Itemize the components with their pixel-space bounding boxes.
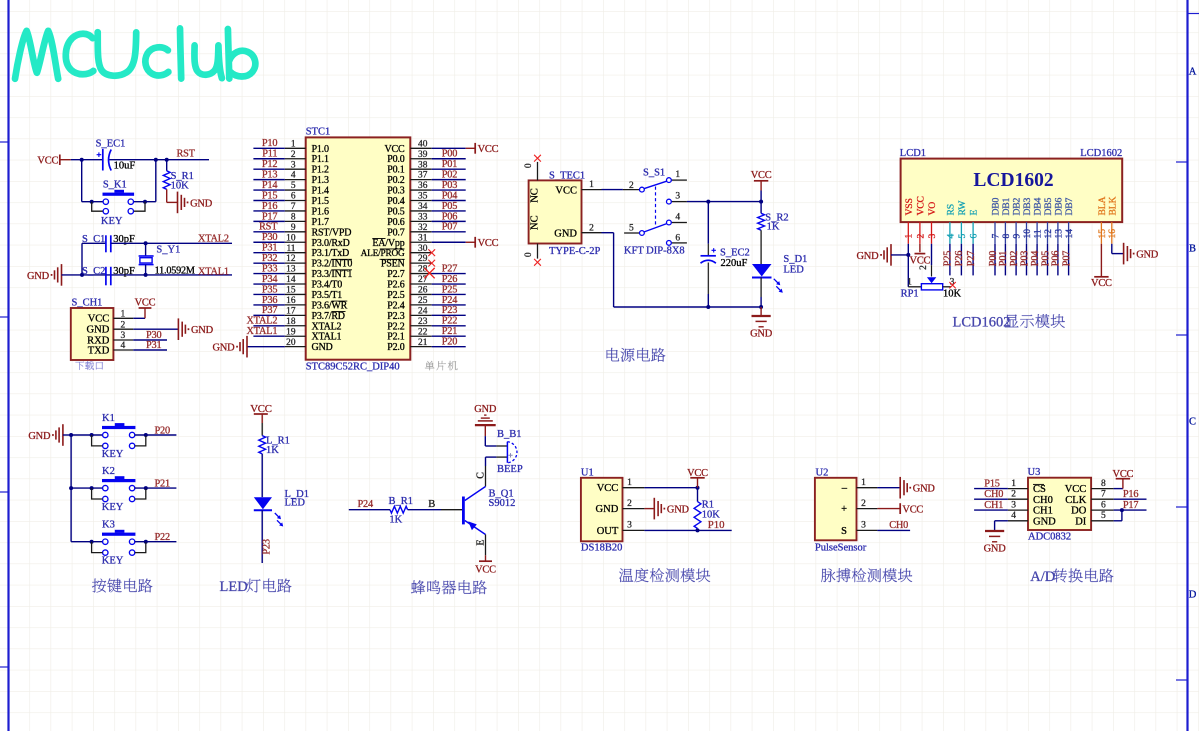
wire L_D1 to P23 <box>261 510 263 563</box>
RP1 value 10K <box>943 288 962 299</box>
svg-text:P31: P31 <box>146 340 161 351</box>
RP1 pin numbers <box>907 278 955 288</box>
svg-text:RST/VPD: RST/VPD <box>312 227 352 238</box>
wire GND to XTAL1 <box>62 273 233 277</box>
ground (ADC) <box>984 531 1007 555</box>
S_C1 value 30pF <box>113 234 135 245</box>
net label CH0 (ADC) <box>984 489 1003 500</box>
caption 按键电路 <box>92 579 152 593</box>
svg-text:STC1: STC1 <box>306 126 331 137</box>
svg-text:9: 9 <box>1013 234 1023 239</box>
svg-text:GND: GND <box>984 544 1007 555</box>
svg-text:CLK: CLK <box>1065 495 1086 506</box>
svg-text:K3: K3 <box>102 520 115 531</box>
emitter pin with E label <box>475 535 486 556</box>
svg-text:P00: P00 <box>442 149 457 160</box>
LCD1602 part name (top right) <box>1080 148 1122 159</box>
U2 pin 2 <box>857 499 878 509</box>
switch S_S1 designator <box>643 168 665 179</box>
svg-text:P10: P10 <box>708 519 725 531</box>
key S_K1 designator <box>103 179 127 190</box>
svg-text:5: 5 <box>958 234 968 239</box>
wire U1 pin2 to GND <box>644 508 654 510</box>
svg-text:P04: P04 <box>442 190 457 201</box>
S_R2 value 1K <box>767 222 780 233</box>
svg-text:P3.0/RxD: P3.0/RxD <box>312 238 350 249</box>
svg-text:CS: CS <box>1033 484 1046 495</box>
svg-text:P0.7: P0.7 <box>387 227 404 238</box>
svg-text:P1.4: P1.4 <box>312 186 329 197</box>
svg-text:6: 6 <box>1101 501 1106 511</box>
svg-text:NC: NC <box>529 188 540 203</box>
svg-text:10uF: 10uF <box>114 160 136 171</box>
U3 pin1 wire P15 <box>974 488 1028 490</box>
svg-text:DB5: DB5 <box>1043 197 1054 215</box>
no-ERC cross (bottom NC) <box>534 259 541 266</box>
svg-text:KEY: KEY <box>102 556 124 567</box>
wire C1 to XTAL2 <box>111 241 232 245</box>
svg-text:7: 7 <box>991 234 1001 239</box>
no-ERC cross pin30 <box>428 249 435 256</box>
wire U2 pin1 to GND <box>877 487 900 489</box>
ADC U3 designator <box>1028 467 1041 478</box>
svg-text:S: S <box>841 526 847 537</box>
svg-text:P06: P06 <box>1051 251 1062 266</box>
svg-text:PSEN: PSEN <box>381 259 405 270</box>
svg-text:LCD1602: LCD1602 <box>973 170 1053 191</box>
power VCC (DS18B20) <box>687 468 708 488</box>
svg-text:P35: P35 <box>262 284 277 295</box>
svg-text:A: A <box>1189 67 1197 78</box>
S_TEC1 part name TYPE-C-2P <box>549 246 600 257</box>
svg-text:P2.4: P2.4 <box>387 300 404 311</box>
svg-text:6: 6 <box>675 233 680 243</box>
wire K1 right <box>135 434 177 436</box>
svg-text:S_D1: S_D1 <box>783 254 807 265</box>
wire K3 right <box>135 541 177 543</box>
connector S_TEC1 body TYPE-C <box>529 180 582 243</box>
svg-text:GND: GND <box>1136 250 1159 261</box>
svg-text:P2.5: P2.5 <box>387 290 404 301</box>
buzzer value BEEP <box>497 464 523 475</box>
U3 pin8 wire to VCC <box>1091 488 1123 490</box>
svg-text:DB6: DB6 <box>1053 197 1064 215</box>
key bus vertical wire <box>69 435 73 542</box>
key K3 designator <box>102 520 115 531</box>
LCD rotated net labels P25-P27 <box>943 251 977 266</box>
B_R1 value 1K <box>389 515 402 526</box>
svg-text:2: 2 <box>916 234 926 239</box>
svg-text:0: 0 <box>524 163 534 168</box>
svg-text:CH0: CH0 <box>889 520 908 531</box>
svg-text:P20: P20 <box>155 426 170 437</box>
B_Q1 value S9012 <box>489 498 516 509</box>
svg-text:P3.2/INT0: P3.2/INT0 <box>312 259 353 270</box>
R1 designator <box>702 499 714 510</box>
S_D1 value LED <box>783 264 804 275</box>
svg-text:CH0: CH0 <box>1033 495 1053 506</box>
svg-text:P24: P24 <box>358 499 373 510</box>
LCD pin numbers <box>905 229 1118 239</box>
capacitor S_C1 <box>106 235 111 252</box>
svg-text:3: 3 <box>861 521 866 531</box>
crystal S_Y1 <box>139 243 154 275</box>
svg-text:1K: 1K <box>266 445 279 456</box>
svg-text:3: 3 <box>675 192 680 202</box>
MCU left net labels <box>247 138 279 337</box>
svg-text:XTAL2: XTAL2 <box>247 316 278 327</box>
svg-text:P1.6: P1.6 <box>312 206 329 217</box>
svg-text:D: D <box>1189 590 1197 601</box>
svg-text:LCD1602: LCD1602 <box>1080 148 1122 159</box>
svg-text:LED: LED <box>220 579 248 595</box>
svg-text:P25: P25 <box>943 251 954 266</box>
power VCC (download) <box>135 298 156 319</box>
wire R1 to pin3 <box>697 529 699 531</box>
svg-text:GND: GND <box>1033 516 1056 527</box>
svg-text:VCC: VCC <box>478 238 499 249</box>
svg-text:VCC: VCC <box>135 298 156 309</box>
capacitor S_C2 <box>106 267 111 286</box>
wire K3 left <box>71 541 103 543</box>
wire U2 pin2 to VCC <box>877 508 900 510</box>
resistor S_R2 <box>758 213 765 230</box>
svg-text:RS: RS <box>945 204 956 215</box>
svg-text:EA/Vpp: EA/Vpp <box>372 238 404 249</box>
svg-text:GND: GND <box>750 329 773 340</box>
switch S_S1 <box>623 178 687 246</box>
svg-text:P23: P23 <box>442 305 457 316</box>
net label P10 <box>708 519 725 531</box>
svg-text:VCC: VCC <box>88 314 110 325</box>
S_CH1 pin 1 wire to VCC <box>113 317 145 319</box>
base wire with B label <box>408 499 462 510</box>
svg-text:P37: P37 <box>262 305 277 316</box>
svg-text:P00: P00 <box>988 251 999 266</box>
svg-text:GND: GND <box>190 198 213 209</box>
svg-text:CH1: CH1 <box>1033 506 1053 517</box>
L_R1 value 1K <box>266 445 279 456</box>
wire VCC to junction <box>760 191 762 202</box>
S_TEC1 top NC pin <box>524 162 538 181</box>
wire K1 left <box>71 434 103 436</box>
collector pin with C label <box>475 466 486 487</box>
svg-text:P27: P27 <box>966 251 977 266</box>
svg-text:VCC: VCC <box>902 505 923 516</box>
svg-text:P16: P16 <box>1123 489 1138 500</box>
svg-text:PulseSensor: PulseSensor <box>815 542 867 553</box>
svg-text:10K: 10K <box>943 288 962 299</box>
wire TEC1 pin2 to bottom rail <box>602 233 762 307</box>
svg-text:220uF: 220uF <box>721 258 748 269</box>
svg-text:GND: GND <box>312 342 333 353</box>
svg-text:B_R1: B_R1 <box>389 496 414 507</box>
wire VCC to S_EC1 <box>71 159 102 161</box>
key S_K1 <box>103 190 135 214</box>
U2 pin 3 <box>857 521 878 531</box>
svg-text:VCC: VCC <box>475 565 496 576</box>
potentiometer RP1 <box>921 284 951 290</box>
wire GND to buzzer <box>485 436 496 446</box>
ground (reset resistor) <box>178 192 213 214</box>
no-ERC cross pin28 <box>424 268 434 278</box>
switch pin numbers <box>629 170 680 243</box>
power VCC (power circuit) <box>751 170 772 191</box>
svg-text:P14: P14 <box>262 180 277 191</box>
net label XTAL1 <box>198 266 229 277</box>
U3 pin7 wire P16 <box>1091 498 1146 500</box>
svg-text:1: 1 <box>907 278 912 288</box>
key K3 brackets <box>90 540 148 553</box>
svg-text:P32: P32 <box>262 253 277 264</box>
svg-text:2: 2 <box>629 181 634 191</box>
net label P21 <box>155 479 170 490</box>
capacitor S_C2 designator <box>82 266 105 277</box>
R1 value 10K <box>702 509 721 520</box>
svg-text:P04: P04 <box>1030 251 1041 266</box>
svg-text:P22: P22 <box>155 532 170 543</box>
svg-text:P17: P17 <box>1123 500 1138 511</box>
MCU U:STC1 designator <box>306 126 331 137</box>
sensor U2 body <box>815 478 857 541</box>
connector S_TEC1 designator <box>549 171 585 182</box>
svg-text:DB4: DB4 <box>1033 197 1044 215</box>
U1 pin 2 <box>623 499 645 509</box>
net label P31 <box>146 340 161 351</box>
svg-text:VCC: VCC <box>915 196 926 215</box>
caption A/D转换电路 <box>1030 568 1113 585</box>
svg-text:13: 13 <box>1054 229 1064 239</box>
caption 脉搏检测模块 <box>821 568 912 582</box>
svg-text:1: 1 <box>905 234 915 239</box>
svg-text:DS18B20: DS18B20 <box>581 542 622 553</box>
MCU comment 单片机 <box>425 361 458 370</box>
svg-text:E: E <box>475 539 486 545</box>
svg-text:DB1: DB1 <box>1001 197 1012 215</box>
caption LED灯电路 <box>220 579 292 595</box>
svg-text:P0.1: P0.1 <box>387 165 404 176</box>
svg-text:DO: DO <box>1071 506 1087 517</box>
wire key right drop <box>133 160 155 202</box>
svg-text:2: 2 <box>589 223 594 233</box>
svg-text:P2.7: P2.7 <box>387 269 404 280</box>
S_D1 designator <box>783 254 807 265</box>
key K2 brackets <box>90 486 148 499</box>
MCU STC1 right pin names <box>361 144 405 353</box>
svg-text:U3: U3 <box>1028 467 1041 478</box>
LED L_D1 <box>254 497 283 526</box>
B_R1 designator <box>389 496 414 507</box>
svg-text:P2.1: P2.1 <box>387 332 404 343</box>
svg-text:P21: P21 <box>442 326 457 337</box>
sensor U1 body <box>581 478 623 542</box>
svg-text:P3.7/RD: P3.7/RD <box>312 311 345 322</box>
node: key left branch <box>80 158 84 162</box>
svg-text:5: 5 <box>1101 511 1106 521</box>
ground (power circuit) <box>750 307 773 340</box>
svg-text:P12: P12 <box>262 159 277 170</box>
svg-text:2: 2 <box>1011 490 1016 500</box>
MCU right net labels <box>442 149 457 348</box>
svg-text:A/D: A/D <box>1030 569 1055 585</box>
wire buzzer to collector <box>486 457 497 466</box>
svg-text:2: 2 <box>627 499 632 509</box>
svg-text:P24: P24 <box>442 295 457 306</box>
svg-text:GND: GND <box>28 431 51 442</box>
U3 pin6 wire P17 <box>1091 508 1146 512</box>
S_C2 value 30pF <box>113 266 135 277</box>
MCU right wires <box>432 148 466 346</box>
svg-text:GND: GND <box>474 404 497 415</box>
svg-text:P01: P01 <box>998 251 1009 266</box>
MCU STC1 left pin numbers <box>286 139 296 347</box>
svg-text:OUT: OUT <box>597 526 619 537</box>
svg-text:ADC0832: ADC0832 <box>1028 531 1071 542</box>
svg-text:XTAL1: XTAL1 <box>312 332 342 343</box>
LCD pin leads <box>908 222 1112 277</box>
no-ERC cross (RP1 pin3) <box>949 282 955 288</box>
svg-text:–: – <box>841 483 848 494</box>
svg-text:GND: GND <box>913 484 936 495</box>
svg-text:XTAL1: XTAL1 <box>247 326 278 337</box>
svg-text:1: 1 <box>861 478 866 488</box>
U3 pin4 wire to GND <box>995 521 1028 531</box>
svg-text:LED: LED <box>783 264 804 275</box>
svg-text:E: E <box>969 210 980 216</box>
key K3 label KEY <box>102 556 124 567</box>
wire RST to S_R1 <box>166 160 168 171</box>
svg-text:P26: P26 <box>442 274 457 285</box>
svg-text:P15: P15 <box>984 478 999 489</box>
svg-text:12: 12 <box>1044 229 1054 239</box>
capacitor S_EC2 <box>701 248 716 263</box>
key K1 designator <box>102 413 115 424</box>
svg-text:0: 0 <box>524 252 534 257</box>
U2 part name PulseSensor <box>815 542 867 553</box>
svg-text:16: 16 <box>1108 229 1118 239</box>
svg-text:P03: P03 <box>1019 251 1030 266</box>
svg-text:P1.5: P1.5 <box>312 196 329 207</box>
L_D1 value LED <box>285 497 306 508</box>
resistor L_R1 <box>259 436 266 454</box>
S_EC1 value 10uF <box>114 160 136 171</box>
S_R2 designator <box>765 213 788 224</box>
svg-text:LCD1602: LCD1602 <box>953 315 1011 331</box>
MCU STC1 right pin numbers <box>418 139 428 347</box>
wire U2 pin3 CH0 <box>877 529 910 531</box>
svg-text:P0.2: P0.2 <box>387 175 404 186</box>
svg-text:P0.5: P0.5 <box>387 206 404 217</box>
wire VSS to GND <box>891 253 910 257</box>
svg-text:4: 4 <box>1011 511 1016 521</box>
svg-text:7: 7 <box>1101 490 1106 500</box>
wire switch pin3 to VCC rail <box>687 200 763 204</box>
LCD pin names <box>904 196 1119 215</box>
svg-text:TYPE-C-2P: TYPE-C-2P <box>549 246 600 257</box>
svg-text:P36: P36 <box>262 295 277 306</box>
svg-text:P3.1/TxD: P3.1/TxD <box>312 248 350 259</box>
wire VCC to L_R1 <box>261 423 263 436</box>
svg-text:CH1: CH1 <box>984 500 1003 511</box>
svg-text:P2.0: P2.0 <box>387 342 404 353</box>
net label P30 <box>146 330 161 341</box>
ground (crystal) <box>27 264 62 286</box>
svg-text:DI: DI <box>1075 516 1087 527</box>
svg-text:4: 4 <box>946 234 956 239</box>
key S_K1 label KEY <box>101 216 123 227</box>
sensor U1 designator <box>581 468 594 479</box>
svg-text:P11: P11 <box>262 149 277 160</box>
svg-text:S9012: S9012 <box>489 498 516 509</box>
ground (DS18B20) <box>654 498 689 520</box>
power VCC (buzzer emitter) <box>475 555 496 575</box>
U3 pin2 wire CH0 <box>974 498 1028 500</box>
svg-text:P15: P15 <box>262 190 277 201</box>
key K2 label KEY <box>102 502 124 513</box>
svg-text:P3.3/INT1: P3.3/INT1 <box>312 269 353 280</box>
key S_K1 brackets <box>90 200 147 212</box>
power VCC (PulseSensor) <box>900 503 923 515</box>
svg-text:RP1: RP1 <box>901 288 919 299</box>
svg-text:P23: P23 <box>261 539 272 554</box>
svg-text:P01: P01 <box>442 159 457 170</box>
LCD1602 body <box>901 159 1123 223</box>
S_CH1 pin 4 wire <box>113 349 167 351</box>
S_TEC1 pin 1 <box>582 180 602 190</box>
key K2 designator <box>102 466 115 477</box>
svg-text:P0.3: P0.3 <box>387 186 404 197</box>
U2 pin 1 <box>857 478 878 488</box>
svg-text:KEY: KEY <box>101 216 123 227</box>
capacitor S_EC1 designator <box>96 138 126 149</box>
wire VCC node to R1 <box>697 488 699 502</box>
net label RST <box>177 149 196 160</box>
svg-text:VCC: VCC <box>385 144 405 155</box>
L_R1 designator <box>266 436 290 447</box>
svg-text:P25: P25 <box>442 284 457 295</box>
MCU STC1 body <box>306 137 411 359</box>
crystal S_Y1 designator <box>156 244 180 255</box>
svg-text:VSS: VSS <box>904 198 915 215</box>
resistor B_R1 <box>390 506 408 513</box>
svg-text:K2: K2 <box>102 466 115 477</box>
svg-text:P17: P17 <box>262 211 277 222</box>
ground (MCU pin20) <box>212 336 247 358</box>
ADC U3 body <box>1028 478 1091 530</box>
wire EC2 to rail <box>706 263 710 310</box>
power VCC (LCD backlight BLA) <box>1091 277 1112 289</box>
wire LED to rail <box>759 278 763 310</box>
key K1 <box>102 423 135 448</box>
caption LCD1602显示模块 <box>953 314 1065 330</box>
svg-text:P30: P30 <box>262 232 277 243</box>
VCC port (reset) <box>37 155 70 167</box>
wire TEC1 pin1 to switch <box>602 189 623 191</box>
svg-text:BLK: BLK <box>1107 197 1118 216</box>
svg-text:P05: P05 <box>1040 251 1051 266</box>
ground (LCD VSS) <box>856 244 891 266</box>
sheet border right edge with zone labels <box>1176 0 1199 731</box>
S_EC2 value 220uF <box>721 258 748 269</box>
svg-text:B: B <box>428 499 435 510</box>
svg-text:P3.5/T1: P3.5/T1 <box>312 290 343 301</box>
svg-text:P30: P30 <box>146 330 161 341</box>
svg-text:11: 11 <box>1034 229 1044 238</box>
key K2 <box>102 476 135 501</box>
resistor R1 <box>694 502 701 529</box>
MCU part number <box>306 362 400 373</box>
node: key right branch <box>154 158 158 162</box>
